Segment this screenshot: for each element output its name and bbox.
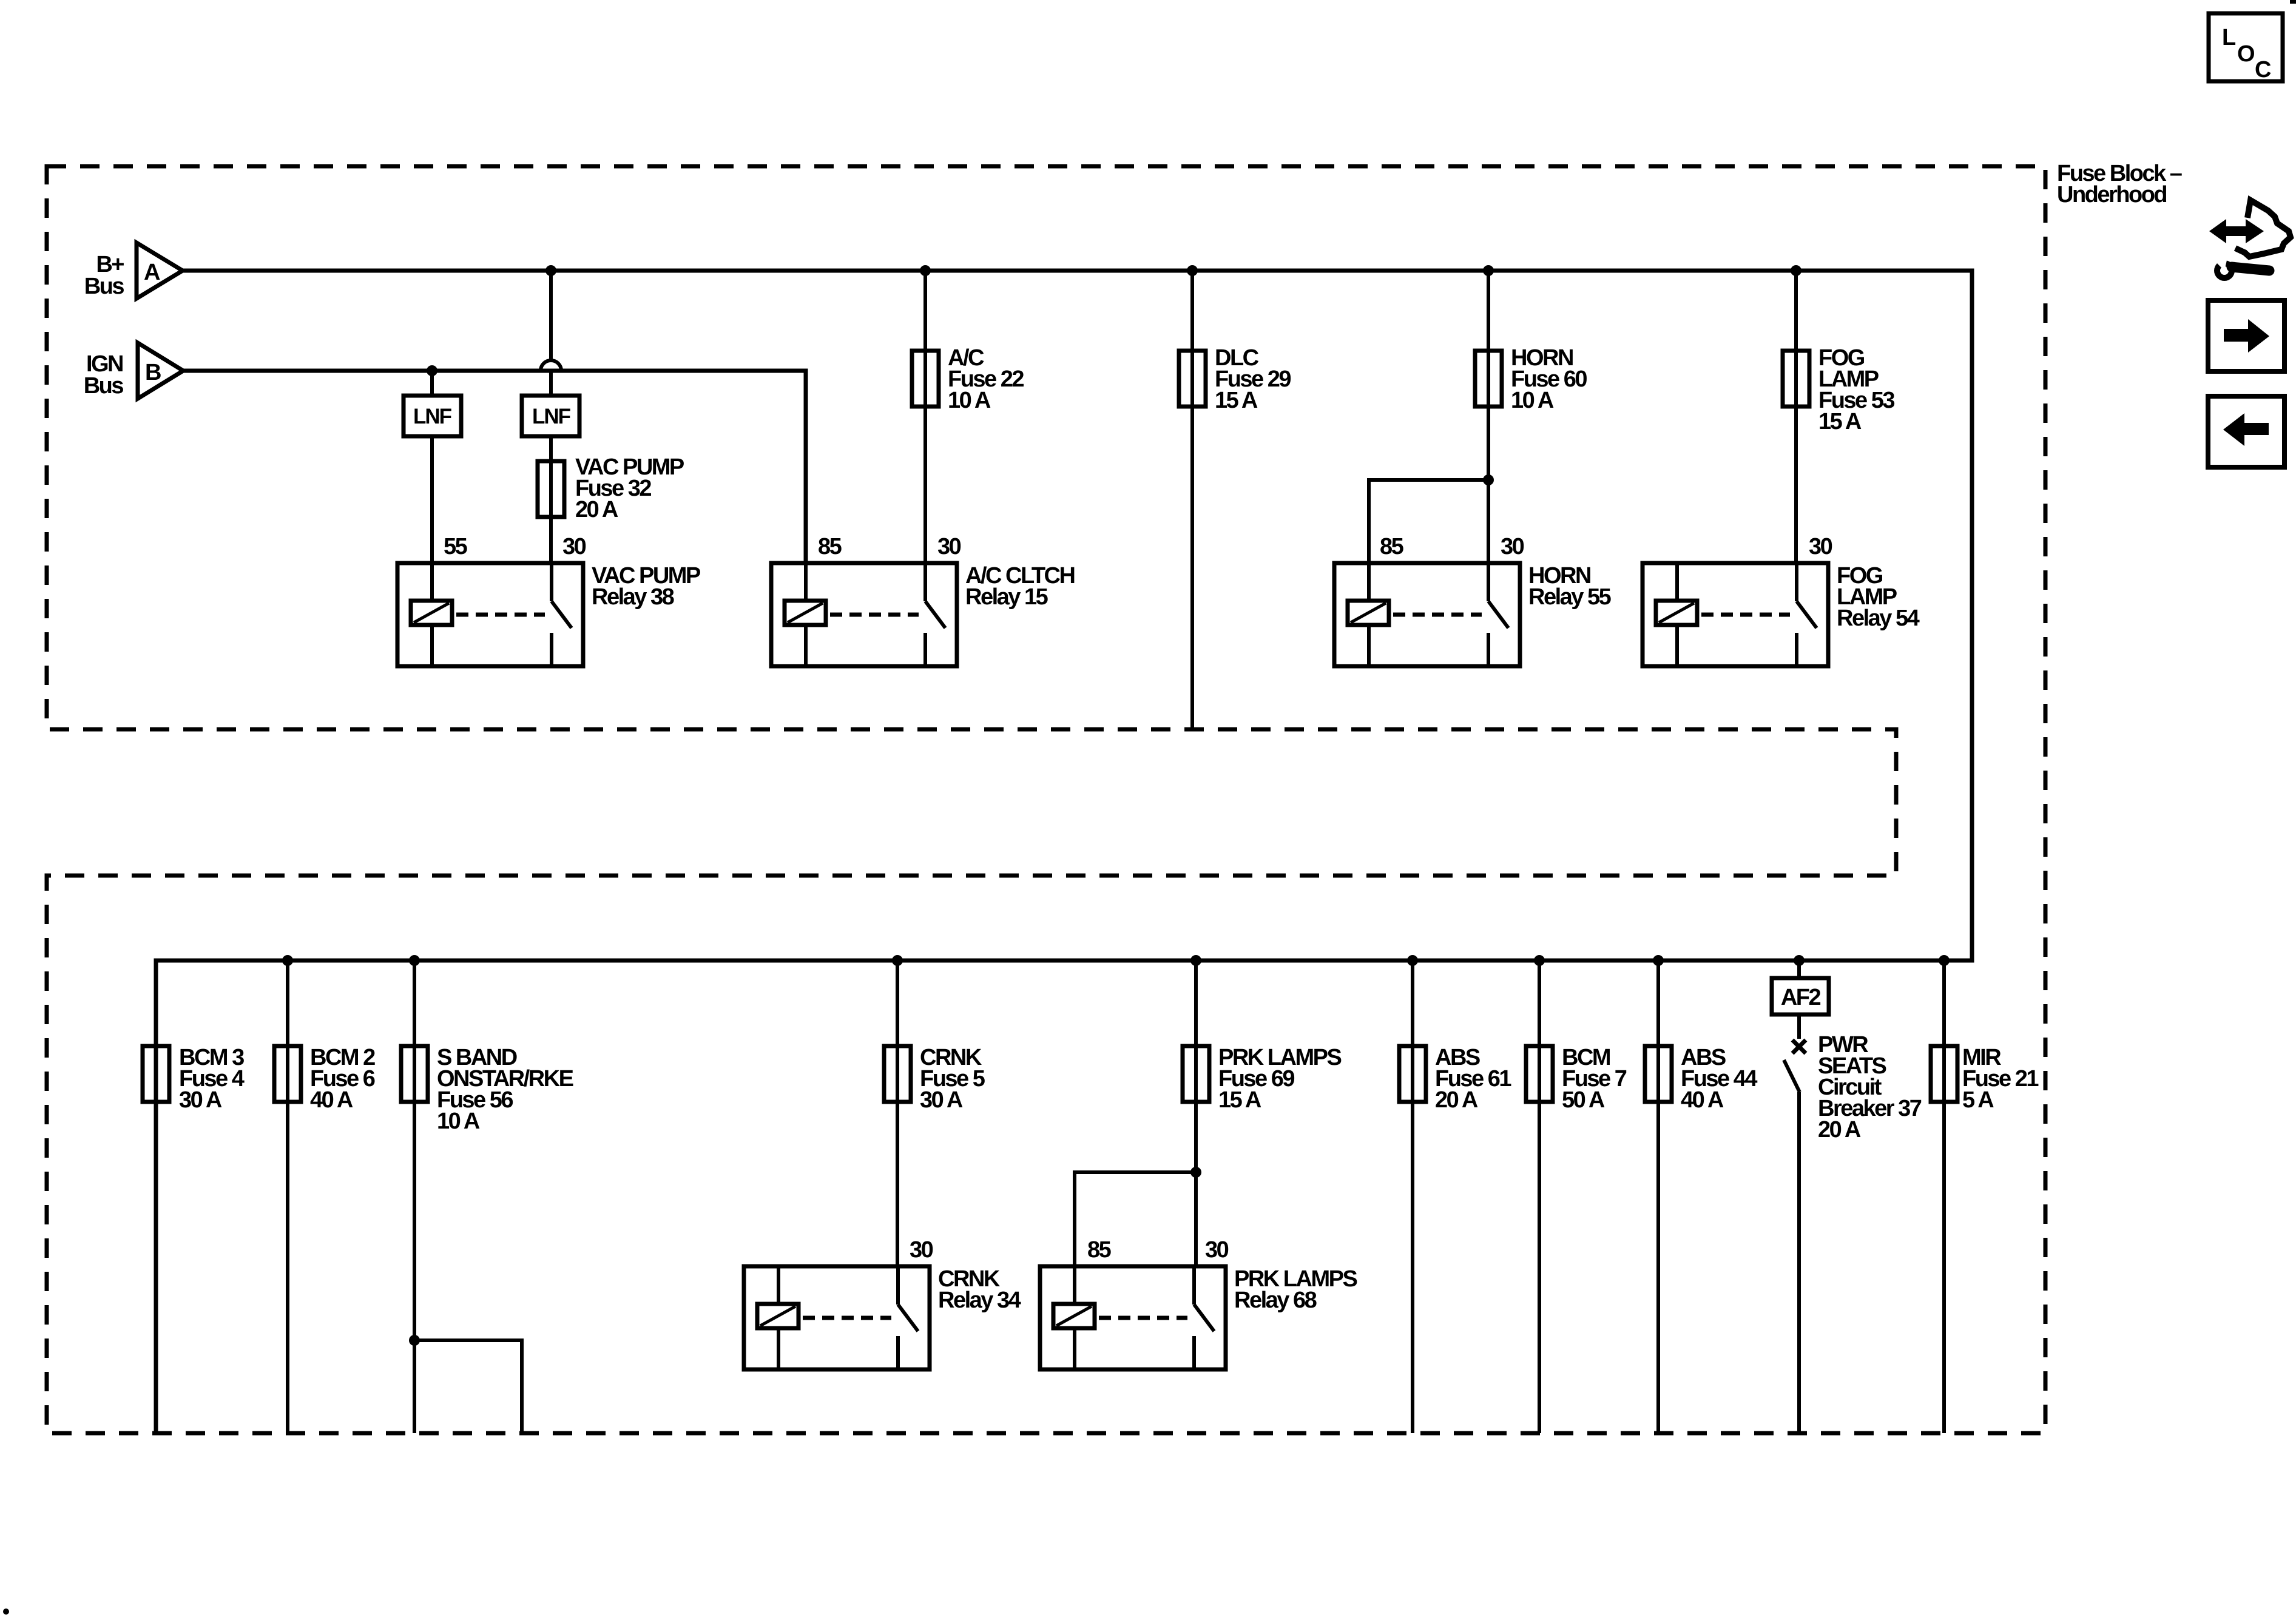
AF2 box <box>1772 978 1829 1014</box>
wire + fuse: HORN Fuse 60 <box>1475 271 1587 563</box>
relay HORN Relay 55 <box>1334 534 1612 666</box>
node: lower bus junction to ABS Fuse 44 <box>1653 955 1664 966</box>
svg-text:C: C <box>2255 57 2271 83</box>
node: lower bus junction to MIR Fuse 21 <box>1939 955 1950 966</box>
tools (wrench) icon <box>2207 200 2291 281</box>
wire + fuse: S BAND ONSTAR/RKE Fuse 56 <box>401 960 573 1433</box>
svg-text:20 A: 20 A <box>1818 1117 1861 1143</box>
LNF box 2 <box>522 396 579 436</box>
svg-text:Underhood: Underhood <box>2057 182 2166 208</box>
page dot bottom left <box>3 1609 9 1615</box>
wire: IGN junction to LNF 1 <box>430 371 434 396</box>
svg-text:15 A: 15 A <box>1215 388 1258 413</box>
svg-text:A: A <box>144 260 160 285</box>
svg-text:20 A: 20 A <box>1435 1087 1478 1113</box>
svg-text:30 A: 30 A <box>920 1087 963 1113</box>
wire: B+ bus from triangle A across top, down right side, lower bus, down to BCM3 fuse <box>156 271 1972 1433</box>
printer mark top right <box>2290 0 2296 4</box>
wire + fuse: A/C Fuse 22 <box>912 271 1024 563</box>
wire: LNF 1 to VAC PUMP relay pin 55 <box>430 436 434 563</box>
circuit breaker PWR SEATS Circuit Breaker 37 <box>1784 1014 1922 1433</box>
wire + fuse: MIR Fuse 21 <box>1931 960 2039 1433</box>
svg-text:40 A: 40 A <box>310 1087 353 1113</box>
wire + fuse: BCM 2 Fuse 6 <box>274 960 375 1433</box>
svg-text:O: O <box>2237 41 2254 67</box>
svg-text:LNF: LNF <box>532 405 571 428</box>
wire + fuse: CRNK Fuse 5 <box>884 960 985 1266</box>
svg-text:85: 85 <box>1380 534 1404 559</box>
node A: B+ Bus feed triangle <box>84 243 183 299</box>
svg-text:Relay 54: Relay 54 <box>1837 606 1920 631</box>
wire: PRK LAMPS fuse to PRK LAMPS relay pin 85 <box>1075 1172 1196 1266</box>
svg-text:55: 55 <box>444 534 468 559</box>
svg-text:10 A: 10 A <box>948 388 991 413</box>
svg-text:30: 30 <box>937 534 961 559</box>
wire + fuse: PRK LAMPS Fuse 69 <box>1183 960 1341 1266</box>
svg-text:AF2: AF2 <box>1781 985 1821 1010</box>
node: lower bus junction to CRNK Fuse 5 <box>892 955 903 966</box>
svg-text:Relay 38: Relay 38 <box>592 584 674 610</box>
wire: bus to AF2 <box>1797 960 1801 978</box>
label Fuse Block Underhood <box>2057 161 2182 208</box>
wire + fuse: ABS Fuse 44 <box>1645 960 1757 1433</box>
LNF box 1 <box>403 396 461 436</box>
relay A/C CLTCH Relay 15 <box>771 534 1074 666</box>
svg-text:85: 85 <box>1087 1237 1112 1263</box>
fuse: BCM 3 Fuse 4 30 A <box>143 1045 245 1113</box>
svg-text:Bus: Bus <box>84 373 124 399</box>
svg-text:30: 30 <box>1809 534 1832 559</box>
svg-text:Relay 55: Relay 55 <box>1528 584 1612 610</box>
node: B+ bus junction to A/C Fuse 22 <box>920 265 931 276</box>
wire: IGN bus to A/C CLTCH relay pin 85 <box>183 371 806 563</box>
LOC reference box <box>2209 13 2283 83</box>
wire: Fuse 32 to VAC PUMP relay pin 30 <box>549 517 553 563</box>
node: PRK LAMPS fuse output junction to relay pin 85 <box>1190 1167 1201 1178</box>
svg-text:20 A: 20 A <box>575 497 618 522</box>
wire: S BAND branch right and down <box>414 1340 522 1433</box>
node: lower bus junction to ABS Fuse 61 <box>1407 955 1418 966</box>
svg-text:50 A: 50 A <box>1562 1087 1605 1113</box>
relay FOG LAMP Relay 54 <box>1643 534 1920 666</box>
svg-text:30: 30 <box>910 1237 933 1263</box>
node: lower bus junction to BCM Fuse 7 <box>1534 955 1545 966</box>
wire + fuse: FOG LAMP Fuse 53 <box>1783 271 1894 563</box>
svg-text:40 A: 40 A <box>1681 1087 1724 1113</box>
node: S BAND output branch junction <box>409 1335 420 1346</box>
svg-text:85: 85 <box>818 534 842 559</box>
back arrow box <box>2208 396 2284 467</box>
node: IGN bus junction to LNF 1 <box>427 365 437 376</box>
node: B+ bus junction to FOG LAMP Fuse 53 <box>1791 265 1801 276</box>
svg-text:B: B <box>145 360 161 385</box>
svg-text:Relay 34: Relay 34 <box>938 1288 1021 1313</box>
node: lower bus junction to BCM 2 Fuse 6 <box>282 955 293 966</box>
svg-text:5 A: 5 A <box>1962 1087 1994 1113</box>
node B: IGN Bus feed triangle <box>84 343 183 399</box>
node: HORN fuse output junction to relay pin 85 <box>1483 474 1494 485</box>
wire + fuse: DLC Fuse 29 <box>1179 271 1291 729</box>
relay PRK LAMPS Relay 68 <box>1040 1237 1357 1369</box>
wire: B+ tap down to LNF 2 with hop over IGN bus <box>541 265 561 396</box>
fuse: VAC PUMP Fuse 32 20 A <box>538 454 684 522</box>
wire: HORN fuse to HORN relay pin 85 <box>1369 480 1488 563</box>
node: B+ bus junction to HORN Fuse 60 <box>1483 265 1494 276</box>
wire: LNF 2 to VAC PUMP Fuse 32 <box>549 436 553 461</box>
svg-text:10 A: 10 A <box>437 1109 480 1134</box>
forward arrow box <box>2208 300 2284 371</box>
svg-text:15 A: 15 A <box>1218 1087 1261 1113</box>
svg-text:Relay 15: Relay 15 <box>965 584 1048 610</box>
svg-text:Bus: Bus <box>84 274 124 299</box>
relay VAC PUMP Relay 38 <box>397 534 701 666</box>
fuse block dashed boundary <box>47 166 2045 1433</box>
svg-text:30: 30 <box>1205 1237 1229 1263</box>
svg-text:30: 30 <box>1501 534 1524 559</box>
node: lower bus junction to S BAND ONSTAR/RKE Fuse 56 <box>409 955 420 966</box>
node: lower bus junction to PRK LAMPS Fuse 69 <box>1190 955 1201 966</box>
wire + fuse: ABS Fuse 61 <box>1399 960 1511 1433</box>
svg-text:30 A: 30 A <box>179 1087 222 1113</box>
node: B+ bus junction to DLC Fuse 29 <box>1187 265 1198 276</box>
wire + fuse: BCM Fuse 7 <box>1526 960 1627 1433</box>
node: lower bus junction to AF2 <box>1794 955 1805 966</box>
svg-text:Relay 68: Relay 68 <box>1234 1288 1317 1313</box>
relay CRNK Relay 34 <box>744 1237 1021 1369</box>
svg-text:15 A: 15 A <box>1818 409 1862 434</box>
svg-text:10 A: 10 A <box>1511 388 1554 413</box>
svg-text:LNF: LNF <box>413 405 452 428</box>
svg-text:L: L <box>2222 25 2236 50</box>
svg-text:30: 30 <box>562 534 586 559</box>
